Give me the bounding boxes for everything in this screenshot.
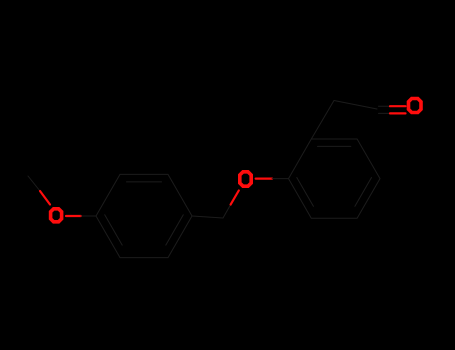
- left ring inner aromatic line top: [127, 181, 162, 183]
- methoxy O-ring bond gray half: [81, 215, 96, 217]
- right ring inner aromatic line bottom-right: [355, 178, 372, 207]
- ether O to right ring bond red half: [256, 178, 272, 180]
- aldehyde C=O lower line red half: [390, 112, 406, 114]
- ether O to right ring bond gray half: [272, 178, 288, 180]
- left ring inner aromatic line bottom-right: [166, 215, 184, 245]
- aldehyde C=O upper line gray half: [379, 105, 391, 107]
- benzylic CH2 bond to ring: [192, 216, 223, 218]
- aldehyde C=O lower line gray half: [379, 112, 391, 114]
- aldehyde C=O upper line red half: [390, 105, 406, 107]
- chain peak to aldehyde carbon bond: [334, 101, 377, 110]
- ether O atom label: [240, 172, 251, 186]
- vinyl bond ring to chain peak: [311, 101, 334, 140]
- CH2-O bond red half: [231, 191, 239, 205]
- right ring inner aromatic line top: [318, 145, 351, 147]
- left ring inner aromatic line bottom-left: [105, 215, 123, 245]
- methyl bond red half: [40, 191, 50, 205]
- right benzene ring: [289, 139, 381, 218]
- methoxy O-ring bond red half: [66, 215, 81, 217]
- right ring inner aromatic line bottom-left: [297, 178, 314, 207]
- aldehyde O atom label: [409, 99, 422, 113]
- methoxy O atom label: [51, 209, 62, 222]
- left benzene ring: [96, 174, 192, 257]
- CH2-O bond gray half: [223, 205, 231, 218]
- methyl bond gray half: [28, 176, 40, 191]
